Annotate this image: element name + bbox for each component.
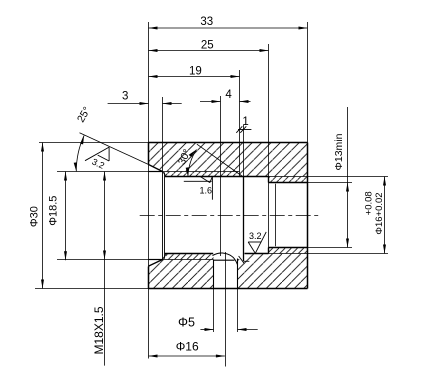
svg-text:+0.08: +0.08: [364, 191, 375, 215]
dimension phi30: [41, 143, 44, 289]
bore top extension thin: [269, 176, 389, 178]
dimension phi13min: [346, 107, 349, 248]
svg-text:1: 1: [242, 116, 248, 128]
svg-text:Φ18.5: Φ18.5: [48, 196, 60, 226]
phi13 bottom extension: [308, 247, 353, 249]
svg-text:Φ16: Φ16: [176, 340, 199, 354]
extension phi5 left: [213, 289, 215, 333]
svg-text:Φ13min: Φ13min: [333, 133, 345, 170]
svg-text:M18X1.5: M18X1.5: [92, 306, 106, 354]
dimension 25: [149, 49, 269, 52]
step edge at x268.5 upper: [268, 177, 270, 183]
extension hole axis x225.5: [225, 252, 227, 367]
hatch thread strip bottom: [165, 254, 214, 260]
angle 25deg arc: [74, 135, 84, 171]
phi13 top extension: [308, 182, 353, 184]
thread end line: [220, 96, 222, 256]
phi13 top edge thick: [269, 182, 308, 184]
svg-text:Φ16+0.02: Φ16+0.02: [374, 192, 385, 234]
notch bottom: [244, 260, 249, 262]
svg-text:3: 3: [122, 91, 128, 103]
hatch bottom left block: [149, 260, 214, 289]
mouth chamfer top: [163, 172, 167, 177]
roughness 3.2 right in bore: [248, 232, 266, 253]
roughness 1.6 in bore: [184, 176, 213, 199]
dimension phi18.5: [64, 172, 67, 261]
dimension 3: [108, 102, 182, 105]
thread major bottom: [57, 259, 214, 261]
bore bottom right thick: [245, 253, 269, 255]
dimension 1: [236, 126, 251, 133]
svg-text:3.2: 3.2: [249, 231, 262, 241]
hatch top band: [149, 143, 308, 177]
bore bottom extension thin: [269, 253, 389, 255]
hatch thread strip top: [165, 172, 240, 177]
svg-text:Φ30: Φ30: [29, 206, 41, 227]
outline: left face lower: [148, 267, 150, 289]
extension phi5 right: [237, 289, 239, 333]
extension left x148.5: [148, 22, 150, 359]
extension for dim19 dim4 x239.5: [239, 70, 241, 177]
svg-text:19: 19: [189, 66, 202, 78]
hatch bottom right block: [238, 254, 308, 289]
extension line x268.5: [268, 44, 270, 248]
outline: bottom edge: [149, 288, 308, 290]
25deg construction line: [80, 133, 149, 165]
cone edge upper 25deg: [149, 165, 163, 172]
roughness 3.2 left on cone: [85, 147, 109, 161]
extension for dim1 x243.5: [243, 125, 245, 177]
dimension phi16 bottom: [149, 355, 225, 358]
angle 30deg arc: [186, 150, 197, 177]
phi13 bottom edge thick: [269, 247, 308, 249]
outline: left face upper: [148, 143, 150, 165]
cone edge lower: [149, 260, 163, 267]
svg-text:33: 33: [200, 16, 213, 28]
outline: top edge: [149, 142, 308, 144]
extension phi30 top: [39, 142, 149, 144]
dimension phi13 inner arrows: [275, 184, 277, 247]
hatch band right bottom: [269, 248, 308, 254]
centerline: [140, 215, 319, 217]
svg-text:4: 4: [225, 89, 232, 101]
dimension 33: [149, 27, 308, 30]
step edge at x268.5 lower: [268, 248, 270, 254]
svg-text:Φ5: Φ5: [178, 315, 195, 329]
bore bottom left thick: [165, 253, 213, 255]
dimension phi16 tolerance: [383, 177, 386, 254]
stub top edge thick: [149, 171, 163, 173]
dimension phi5: [200, 328, 257, 331]
mouth inner vertical: [162, 172, 164, 260]
extension x162.5 top: [162, 97, 164, 172]
svg-text:1.6: 1.6: [199, 185, 212, 195]
phi5 channel left wall: [213, 260, 215, 289]
dimension 19: [149, 75, 240, 78]
stub bottom edge thick: [149, 259, 163, 261]
notch chamfer: [239, 256, 245, 264]
bore top edge thick: [165, 176, 269, 178]
svg-text:25: 25: [201, 40, 214, 52]
thread major top: [57, 171, 240, 173]
dimension M18X1.5: [103, 172, 106, 366]
phi5 channel right wall: [237, 259, 239, 289]
extension right x307.5: [307, 22, 309, 143]
outline: right face: [307, 143, 309, 289]
channel top lip: [214, 259, 235, 261]
dome curve drill runout: [213, 253, 238, 264]
mouth chamfer bottom: [163, 254, 167, 260]
bore bottom face vertical: [243, 177, 245, 262]
30deg cone line: [197, 144, 243, 176]
dimension 4: [200, 100, 251, 103]
hatch band right top: [269, 177, 308, 183]
extension phi30 bottom: [35, 288, 149, 290]
mouth inner vertical 2: [164, 172, 166, 258]
